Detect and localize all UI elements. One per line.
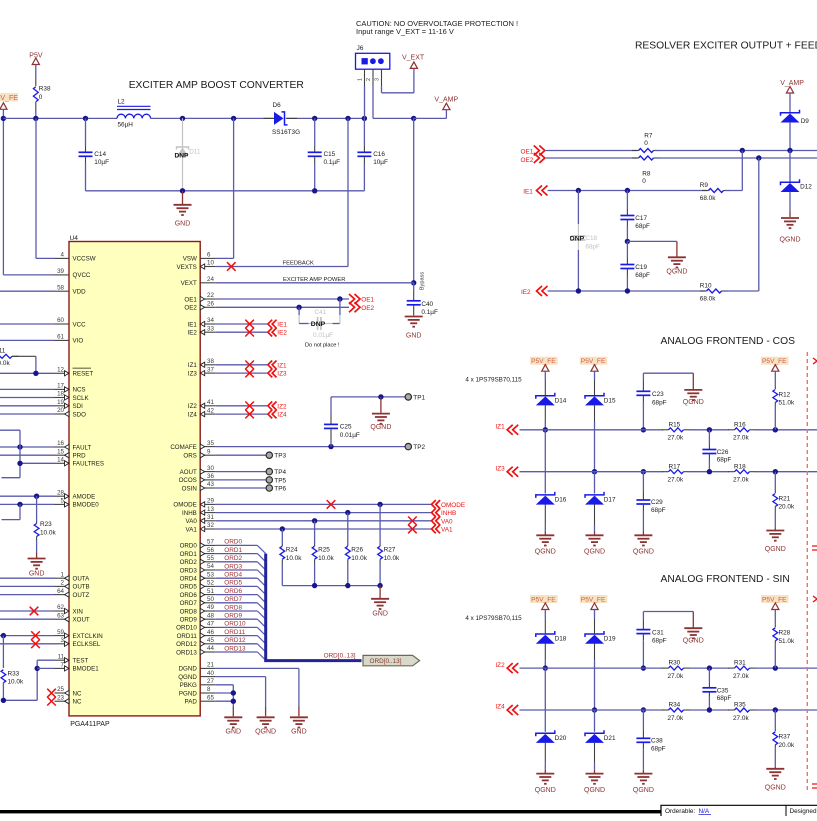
svg-text:VA0: VA0: [186, 518, 198, 525]
svg-text:C26: C26: [717, 449, 729, 456]
svg-text:R11: R11: [0, 347, 6, 354]
svg-text:OUTA: OUTA: [73, 576, 91, 583]
svg-text:SS16T3G: SS16T3G: [272, 129, 300, 136]
svg-text:29: 29: [207, 498, 214, 505]
svg-text:10: 10: [207, 260, 214, 267]
svg-text:ECLKSEL: ECLKSEL: [73, 641, 101, 648]
svg-text:R23: R23: [40, 521, 52, 528]
svg-text:R26: R26: [351, 547, 363, 554]
svg-text:0: 0: [39, 94, 43, 101]
svg-text:P5V_FE: P5V_FE: [581, 597, 606, 604]
svg-text:63: 63: [57, 612, 64, 619]
svg-text:GND: GND: [226, 729, 242, 736]
svg-text:QGND: QGND: [683, 399, 704, 406]
svg-text:35: 35: [207, 440, 214, 447]
svg-text:27: 27: [207, 678, 214, 685]
svg-text:DGND: DGND: [179, 666, 198, 673]
svg-text:30: 30: [207, 465, 214, 472]
svg-text:10.0k: 10.0k: [40, 530, 56, 537]
svg-text:R30: R30: [669, 660, 681, 667]
svg-text:C19: C19: [635, 264, 647, 271]
svg-text:R7: R7: [644, 133, 653, 140]
svg-text:18: 18: [57, 391, 64, 398]
svg-text:60: 60: [57, 317, 64, 324]
svg-text:C18: C18: [585, 235, 597, 242]
svg-text:VEXT: VEXT: [181, 280, 197, 287]
svg-text:68pF: 68pF: [585, 244, 600, 251]
svg-text:VA0: VA0: [441, 518, 453, 525]
svg-text:68.0k: 68.0k: [700, 195, 716, 202]
svg-text:68pF: 68pF: [717, 695, 732, 702]
svg-text:68pF: 68pF: [635, 272, 650, 279]
svg-text:24: 24: [207, 276, 214, 283]
svg-text:VSW: VSW: [183, 256, 197, 263]
svg-text:4 x 1PS79SB70,115: 4 x 1PS79SB70,115: [465, 377, 522, 384]
svg-text:QGND: QGND: [255, 729, 276, 736]
svg-text:QGND: QGND: [765, 546, 786, 553]
svg-text:27.0k: 27.0k: [733, 477, 749, 484]
svg-text:ORD10: ORD10: [176, 625, 197, 632]
svg-text:16: 16: [57, 440, 64, 447]
svg-text:IZ4: IZ4: [277, 412, 287, 419]
svg-text:45: 45: [207, 637, 214, 644]
svg-text:21: 21: [207, 662, 214, 669]
svg-text:EXTCLKIN: EXTCLKIN: [73, 633, 103, 640]
svg-text:OSIN: OSIN: [182, 485, 197, 492]
svg-text:IE2: IE2: [521, 289, 531, 296]
svg-text:IE2: IE2: [277, 330, 287, 337]
svg-text:SDI: SDI: [73, 403, 84, 410]
svg-text:GND: GND: [406, 333, 422, 340]
svg-text:R9: R9: [700, 182, 709, 189]
svg-text:3: 3: [61, 637, 65, 644]
svg-text:OE2: OE2: [521, 157, 534, 164]
svg-text:57: 57: [207, 539, 214, 546]
svg-text:ORD3: ORD3: [224, 563, 242, 570]
svg-text:SDO: SDO: [73, 411, 87, 418]
svg-text:Bypass: Bypass: [419, 272, 425, 291]
svg-text:55: 55: [207, 555, 214, 562]
svg-text:ORD9: ORD9: [180, 617, 198, 624]
svg-text:D9: D9: [801, 118, 810, 125]
svg-text:54: 54: [207, 563, 214, 570]
svg-text:OE1: OE1: [521, 149, 534, 156]
svg-text:OMODE: OMODE: [441, 502, 465, 509]
svg-text:INHB: INHB: [182, 510, 197, 517]
svg-text:5: 5: [61, 498, 65, 505]
svg-text:12: 12: [57, 367, 64, 374]
svg-text:IE1: IE1: [188, 321, 198, 328]
svg-text:GND: GND: [291, 729, 307, 736]
svg-text:27.0k: 27.0k: [668, 673, 684, 680]
svg-text:9: 9: [207, 448, 211, 455]
svg-text:39: 39: [57, 268, 64, 275]
svg-text:64: 64: [57, 588, 64, 595]
svg-text:TP1: TP1: [413, 394, 425, 401]
svg-text:ANALOG FRONTEND - COS: ANALOG FRONTEND - COS: [661, 336, 796, 347]
svg-text:ORD11: ORD11: [177, 633, 198, 640]
svg-text:68pF: 68pF: [717, 457, 732, 464]
svg-text:C29: C29: [651, 499, 663, 506]
svg-text:ORD12: ORD12: [224, 637, 246, 644]
svg-text:C35: C35: [717, 688, 729, 695]
svg-text:10.0k: 10.0k: [0, 360, 10, 367]
svg-text:ORD6: ORD6: [180, 592, 198, 599]
svg-text:TP2: TP2: [413, 444, 425, 451]
svg-text:D11: D11: [189, 149, 201, 156]
svg-text:PBKG: PBKG: [180, 682, 197, 689]
svg-text:GND: GND: [372, 610, 388, 617]
svg-text:FAULT: FAULT: [73, 444, 92, 451]
svg-text:10.0k: 10.0k: [384, 555, 400, 562]
svg-text:OE2: OE2: [184, 305, 197, 312]
svg-text:14: 14: [57, 457, 64, 464]
svg-text:ORD7: ORD7: [224, 596, 242, 603]
svg-text:56µH: 56µH: [118, 122, 134, 129]
svg-text:ORD7: ORD7: [180, 600, 198, 607]
svg-text:NCS: NCS: [73, 387, 86, 394]
svg-text:44: 44: [207, 645, 214, 652]
svg-text:V_EXT: V_EXT: [402, 54, 425, 61]
svg-text:R15: R15: [669, 421, 681, 428]
svg-text:TP5: TP5: [274, 477, 286, 484]
svg-text:QGND: QGND: [584, 549, 605, 556]
svg-text:DNP: DNP: [311, 321, 326, 328]
svg-text:OMODE: OMODE: [173, 502, 196, 509]
svg-text:OCOS: OCOS: [179, 477, 197, 484]
svg-text:62: 62: [57, 604, 64, 611]
svg-text:48: 48: [207, 612, 214, 619]
svg-text:R27: R27: [384, 547, 396, 554]
svg-text:PAD: PAD: [185, 699, 198, 706]
svg-text:D20: D20: [555, 735, 567, 742]
svg-text:68pF: 68pF: [651, 746, 666, 753]
svg-text:52: 52: [207, 580, 214, 587]
svg-text:ORD[0..13]: ORD[0..13]: [324, 653, 356, 660]
svg-text:47: 47: [207, 621, 214, 628]
svg-text:COMAFE: COMAFE: [170, 444, 196, 451]
svg-text:TP6: TP6: [274, 485, 286, 492]
svg-text:R10: R10: [700, 283, 712, 290]
svg-text:IZ3: IZ3: [495, 465, 505, 472]
svg-text:28: 28: [57, 489, 64, 496]
svg-text:D15: D15: [604, 397, 616, 404]
svg-text:AOUT: AOUT: [180, 469, 197, 476]
svg-text:ORD13: ORD13: [224, 645, 246, 652]
svg-text:QGND: QGND: [535, 549, 556, 556]
svg-text:25: 25: [57, 686, 64, 693]
svg-text:D17: D17: [604, 497, 616, 504]
svg-text:2: 2: [366, 78, 372, 81]
svg-text:D12: D12: [800, 183, 812, 190]
svg-text:AMODE: AMODE: [73, 494, 96, 501]
svg-text:OUTZ: OUTZ: [73, 592, 90, 599]
svg-text:10µF: 10µF: [94, 159, 109, 166]
svg-text:36: 36: [207, 473, 214, 480]
svg-text:41: 41: [207, 399, 214, 406]
svg-text:ORD3: ORD3: [180, 567, 198, 574]
svg-text:D21: D21: [604, 735, 616, 742]
svg-text:R33: R33: [8, 670, 20, 677]
svg-text:ORD0: ORD0: [224, 539, 242, 546]
svg-text:10.0k: 10.0k: [318, 555, 334, 562]
svg-text:PGA411PAP: PGA411PAP: [70, 721, 110, 728]
svg-text:R31: R31: [734, 660, 746, 667]
svg-text:Do not place !: Do not place !: [305, 343, 340, 349]
svg-text:P5V_FE: P5V_FE: [762, 358, 787, 365]
svg-text:ORD12: ORD12: [176, 641, 197, 648]
svg-text:ORD13: ORD13: [176, 649, 197, 656]
svg-text:C38: C38: [651, 737, 663, 744]
svg-text:27.0k: 27.0k: [668, 435, 684, 442]
svg-text:IZ4: IZ4: [495, 704, 505, 711]
svg-text:P5V_FE: P5V_FE: [581, 358, 606, 365]
svg-text:IZ1: IZ1: [277, 362, 287, 369]
svg-text:2: 2: [61, 580, 65, 587]
svg-text:11: 11: [58, 653, 65, 660]
svg-text:27.0k: 27.0k: [733, 715, 749, 722]
svg-text:42: 42: [207, 407, 214, 414]
svg-text:R21: R21: [779, 495, 791, 502]
svg-text:20: 20: [57, 407, 64, 414]
svg-text:R17: R17: [669, 463, 681, 470]
svg-text:33: 33: [207, 325, 214, 332]
svg-text:31: 31: [207, 514, 214, 521]
svg-text:C25: C25: [340, 423, 352, 430]
svg-text:68pF: 68pF: [635, 223, 650, 230]
svg-text:QGND: QGND: [633, 549, 654, 556]
svg-text:17: 17: [57, 383, 64, 390]
svg-text:QVCC: QVCC: [73, 272, 91, 279]
svg-text:46: 46: [207, 629, 214, 636]
svg-text:OE2: OE2: [361, 305, 374, 312]
svg-text:C31: C31: [652, 630, 664, 637]
svg-text:IZ3: IZ3: [277, 371, 287, 378]
svg-text:R12: R12: [779, 391, 791, 398]
svg-text:GND: GND: [29, 571, 45, 578]
svg-text:TP4: TP4: [274, 469, 286, 476]
svg-text:QGND: QGND: [535, 787, 556, 794]
svg-text:R35: R35: [734, 702, 746, 709]
svg-text:34: 34: [207, 317, 214, 324]
svg-text:56: 56: [207, 547, 214, 554]
svg-text:VCC: VCC: [73, 321, 87, 328]
svg-text:QGND: QGND: [666, 268, 687, 275]
svg-text:INHB: INHB: [441, 510, 456, 517]
svg-text:IE2: IE2: [188, 330, 198, 337]
svg-text:ORD10: ORD10: [224, 621, 246, 628]
svg-text:FEEDBACK: FEEDBACK: [283, 261, 314, 267]
svg-text:ORD0: ORD0: [180, 543, 198, 550]
svg-text:RESOLVER EXCITER OUTPUT + FEED: RESOLVER EXCITER OUTPUT + FEEDBACK: [635, 41, 817, 52]
svg-text:ORD8: ORD8: [180, 608, 198, 615]
svg-text:C16: C16: [373, 151, 385, 158]
svg-text:P5V_FE: P5V_FE: [531, 358, 556, 365]
svg-text:J6: J6: [357, 45, 364, 52]
svg-text:Input range V_EXT = 11-16 V: Input range V_EXT = 11-16 V: [356, 27, 454, 36]
svg-text:0: 0: [642, 178, 646, 185]
svg-text:VA1: VA1: [441, 527, 453, 534]
svg-text:D14: D14: [555, 397, 567, 404]
svg-text:PGND: PGND: [179, 690, 197, 697]
svg-text:D6: D6: [273, 102, 282, 109]
svg-text:ORD8: ORD8: [224, 604, 242, 611]
svg-text:C41: C41: [315, 309, 327, 316]
svg-text:53: 53: [207, 571, 214, 578]
svg-text:ORD5: ORD5: [180, 584, 198, 591]
svg-text:20.0k: 20.0k: [779, 742, 795, 749]
svg-text:Orderable:: Orderable:: [665, 808, 695, 815]
svg-text:27.0k: 27.0k: [668, 477, 684, 484]
svg-text:R28: R28: [779, 630, 791, 637]
svg-text:D18: D18: [555, 636, 567, 643]
svg-text:68pF: 68pF: [652, 399, 667, 406]
svg-text:59: 59: [57, 629, 64, 636]
svg-text:QGND: QGND: [633, 787, 654, 794]
svg-text:37: 37: [207, 366, 214, 373]
svg-text:OE1: OE1: [184, 296, 197, 303]
svg-text:R8: R8: [642, 171, 651, 178]
svg-text:ORD5: ORD5: [224, 580, 242, 587]
svg-text:ORD1: ORD1: [180, 551, 198, 558]
svg-text:IZ4: IZ4: [188, 411, 197, 418]
svg-text:OUTB: OUTB: [73, 584, 90, 591]
svg-text:C23: C23: [652, 391, 664, 398]
svg-text:68pF: 68pF: [651, 507, 666, 514]
svg-text:1: 1: [357, 78, 363, 81]
svg-text:L2: L2: [118, 98, 126, 105]
svg-text:R25: R25: [318, 547, 330, 554]
svg-text:ORS: ORS: [183, 453, 196, 460]
svg-text:NC: NC: [73, 699, 82, 706]
svg-text:68pF: 68pF: [652, 638, 667, 645]
svg-text:32: 32: [207, 522, 214, 529]
svg-text:0.1µF: 0.1µF: [324, 159, 341, 166]
svg-text:58: 58: [57, 284, 64, 291]
svg-text:43: 43: [207, 481, 214, 488]
svg-text:OE1: OE1: [361, 297, 374, 304]
svg-text:27.0k: 27.0k: [733, 673, 749, 680]
svg-text:R18: R18: [734, 463, 746, 470]
svg-text:U4: U4: [70, 235, 79, 242]
svg-text:38: 38: [207, 358, 214, 365]
svg-text:QGND: QGND: [584, 787, 605, 794]
svg-text:IZ2: IZ2: [188, 403, 197, 410]
svg-text:0: 0: [644, 140, 648, 147]
svg-text:0.1µF: 0.1µF: [421, 309, 438, 316]
svg-text:26: 26: [207, 301, 214, 308]
svg-text:5V_FE: 5V_FE: [0, 95, 18, 102]
svg-text:IZ2: IZ2: [495, 662, 505, 669]
svg-text:1: 1: [61, 571, 65, 578]
svg-text:ORD2: ORD2: [180, 559, 198, 566]
svg-text:10.0k: 10.0k: [286, 555, 302, 562]
svg-text:ORD9: ORD9: [224, 613, 242, 620]
svg-text:IZ3: IZ3: [188, 370, 197, 377]
svg-text:D16: D16: [555, 497, 567, 504]
svg-text:QGND: QGND: [780, 237, 801, 244]
svg-text:40: 40: [207, 670, 214, 677]
svg-text:P5V_FE: P5V_FE: [531, 597, 556, 604]
svg-text:6: 6: [207, 252, 211, 259]
svg-text:27.0k: 27.0k: [733, 435, 749, 442]
svg-text:VEXTS: VEXTS: [177, 264, 197, 271]
svg-text:IE1: IE1: [523, 189, 533, 196]
svg-text:R24: R24: [286, 547, 298, 554]
svg-text:51.0k: 51.0k: [779, 638, 795, 645]
svg-text:3: 3: [374, 78, 380, 81]
svg-text:QGND: QGND: [683, 638, 704, 645]
svg-text:13: 13: [207, 506, 214, 513]
svg-text:22: 22: [207, 292, 214, 299]
svg-text:EXCITER AMP BOOST CONVERTER: EXCITER AMP BOOST CONVERTER: [129, 80, 304, 91]
svg-text:DNP: DNP: [570, 235, 585, 242]
svg-text:0.01µF: 0.01µF: [340, 432, 360, 439]
svg-text:IE1: IE1: [277, 322, 287, 329]
svg-text:QGND: QGND: [370, 424, 391, 431]
svg-text:ORD4: ORD4: [180, 576, 198, 583]
svg-text:QGND: QGND: [178, 674, 197, 681]
svg-text:R16: R16: [734, 421, 746, 428]
svg-text:DNP: DNP: [175, 153, 190, 160]
svg-text:ORD4: ORD4: [224, 572, 242, 579]
svg-text:VIO: VIO: [73, 338, 84, 345]
svg-text:RESET: RESET: [73, 371, 94, 378]
svg-text:NC: NC: [73, 690, 82, 697]
svg-text:61: 61: [57, 334, 64, 341]
svg-text:P5V_FE: P5V_FE: [762, 597, 787, 604]
svg-text:51: 51: [207, 588, 214, 595]
svg-text:ORD2: ORD2: [224, 555, 242, 562]
svg-text:TEST: TEST: [73, 658, 89, 665]
svg-text:IZ2: IZ2: [277, 403, 287, 410]
svg-text:PRD: PRD: [73, 453, 87, 460]
svg-text:QGND: QGND: [765, 784, 786, 791]
svg-text:ORD11: ORD11: [224, 629, 245, 636]
svg-text:7: 7: [61, 662, 65, 669]
svg-text:IZ1: IZ1: [188, 362, 197, 369]
svg-text:BMODE1: BMODE1: [73, 666, 100, 673]
svg-text:VA1: VA1: [186, 526, 198, 533]
svg-text:4: 4: [61, 252, 65, 259]
svg-text:SCLK: SCLK: [73, 395, 90, 402]
svg-text:ORD[0..13]: ORD[0..13]: [370, 658, 402, 665]
svg-text:65: 65: [207, 694, 214, 701]
svg-text:FAULTRES: FAULTRES: [73, 461, 105, 468]
svg-text:51.0k: 51.0k: [779, 400, 795, 407]
svg-text:V_AMP: V_AMP: [780, 80, 804, 87]
svg-text:R34: R34: [669, 702, 681, 709]
svg-text:0.01µF: 0.01µF: [313, 332, 333, 339]
svg-text:XIN: XIN: [73, 608, 83, 615]
svg-text:Designed: Designed: [790, 808, 817, 815]
svg-text:D19: D19: [604, 636, 616, 643]
svg-text:20.0k: 20.0k: [779, 504, 795, 511]
svg-text:R37: R37: [779, 734, 791, 741]
svg-text:C15: C15: [324, 151, 336, 158]
svg-text:C17: C17: [635, 215, 647, 222]
svg-text:VDD: VDD: [73, 289, 87, 296]
svg-text:C14: C14: [94, 151, 106, 158]
svg-text:10.0k: 10.0k: [351, 555, 367, 562]
svg-text:GND: GND: [175, 220, 191, 227]
svg-text:49: 49: [207, 604, 214, 611]
svg-text:10.0k: 10.0k: [8, 679, 24, 686]
svg-text:TP3: TP3: [274, 453, 286, 460]
svg-text:BMODE0: BMODE0: [73, 502, 100, 509]
svg-text:27.0k: 27.0k: [668, 715, 684, 722]
svg-text:19: 19: [57, 399, 64, 406]
